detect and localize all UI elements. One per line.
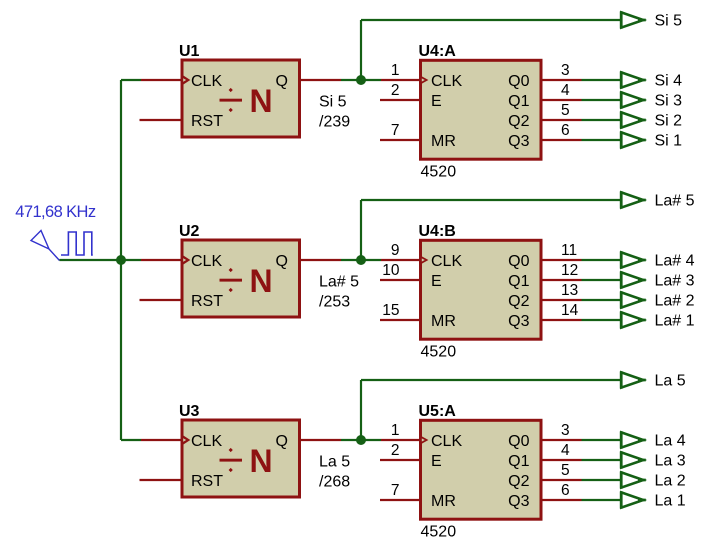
svg-text:3: 3 <box>561 422 570 439</box>
U1 pin RST <box>140 119 184 121</box>
junction node La# 5 <box>356 255 366 265</box>
wire Q2 to buffer La# 2 <box>582 299 621 301</box>
output buffer La 3 <box>621 451 646 468</box>
svg-text:Q: Q <box>276 73 288 90</box>
svg-text:Q2: Q2 <box>508 293 529 310</box>
svg-text:1: 1 <box>391 62 400 79</box>
U2 divide symbol <box>220 268 243 292</box>
svg-text:7: 7 <box>391 122 400 139</box>
U3 divide symbol <box>220 448 243 472</box>
svg-text:La 5: La 5 <box>655 373 686 390</box>
svg-text:14: 14 <box>561 302 579 319</box>
counter U4:A body <box>421 60 542 159</box>
U5:A pin Q1 <box>540 459 582 461</box>
junction clock bus <box>116 255 126 265</box>
output buffer La 4 <box>621 431 646 448</box>
svg-text:CLK: CLK <box>191 433 222 450</box>
svg-text:La 2: La 2 <box>655 473 686 490</box>
wire to La 5 buffer <box>361 379 620 381</box>
svg-text:La# 5: La# 5 <box>319 274 359 291</box>
svg-text:11: 11 <box>561 242 577 259</box>
svg-text:N: N <box>250 443 273 479</box>
svg-text:Si 2: Si 2 <box>655 113 683 130</box>
svg-text:Q1: Q1 <box>508 453 529 470</box>
U3 pin RST <box>140 479 184 481</box>
U4:B pin Q2 <box>540 299 582 301</box>
U5:A pin E <box>380 459 422 461</box>
svg-text:U4:A: U4:A <box>419 43 457 60</box>
svg-text:6: 6 <box>561 122 570 139</box>
svg-text:12: 12 <box>561 262 578 279</box>
wire Q0 to buffer La# 4 <box>582 259 621 261</box>
U3 pin Q <box>299 439 341 441</box>
U4:B clock chevron <box>421 256 429 265</box>
svg-text:6: 6 <box>561 482 570 499</box>
svg-text:Si 5: Si 5 <box>655 13 683 30</box>
output buffer Si 4 <box>621 71 646 88</box>
wire U2 Q to U4:B CLK <box>341 259 381 261</box>
U4:A pin CLK <box>381 79 422 81</box>
svg-text:U4:B: U4:B <box>419 223 456 240</box>
svg-text:RST: RST <box>191 293 223 310</box>
U1 clock chevron <box>182 75 420 86</box>
svg-text:13: 13 <box>561 282 578 299</box>
U3 clock chevron <box>182 435 420 446</box>
svg-text:Si 1: Si 1 <box>655 133 683 150</box>
svg-text:2: 2 <box>391 82 400 99</box>
U5:A pin Q2 <box>540 479 582 481</box>
svg-text:CLK: CLK <box>431 73 462 90</box>
U4:B pin Q3 <box>540 319 582 321</box>
svg-text:RST: RST <box>191 473 223 490</box>
svg-text:Q1: Q1 <box>508 273 529 290</box>
svg-text:MR: MR <box>431 313 456 330</box>
counter U4:B body <box>421 240 542 339</box>
svg-text:Q3: Q3 <box>508 493 529 510</box>
U1 pin Q <box>299 79 341 81</box>
svg-text:La 1: La 1 <box>655 493 686 510</box>
svg-text:4520: 4520 <box>421 163 457 180</box>
output buffer La# 1 <box>621 311 646 328</box>
U2 pin CLK <box>141 259 183 261</box>
wire clock to bus <box>60 259 122 261</box>
wire junction up <box>360 380 362 440</box>
svg-text:RST: RST <box>191 113 223 130</box>
output buffer La# 3 <box>621 271 646 288</box>
U4:A pin Q0 <box>540 79 582 81</box>
wire Q3 to buffer La# 1 <box>582 319 621 321</box>
svg-text:La 3: La 3 <box>655 453 686 470</box>
svg-text:Q: Q <box>276 253 288 270</box>
clock generator waveform <box>61 232 93 255</box>
svg-text:9: 9 <box>391 242 400 259</box>
svg-text:5: 5 <box>561 462 570 479</box>
U4:B pin MR <box>380 319 422 321</box>
svg-text:U5:A: U5:A <box>419 403 457 420</box>
wire Q1 to buffer La 3 <box>582 459 621 461</box>
output buffer La# 4 <box>621 251 646 268</box>
wire CLK bus vertical <box>120 80 122 440</box>
wire Q3 to buffer Si 1 <box>582 139 621 141</box>
svg-text:Q: Q <box>276 433 288 450</box>
svg-text:MR: MR <box>431 493 456 510</box>
svg-text:CLK: CLK <box>431 433 462 450</box>
svg-text:Q2: Q2 <box>508 473 529 490</box>
U4:B pin E <box>380 279 422 281</box>
svg-text:E: E <box>431 453 442 470</box>
U2 clock chevron <box>182 255 420 266</box>
svg-text:Q3: Q3 <box>508 133 529 150</box>
clock generator arrow <box>31 231 60 261</box>
U4:B pin Q1 <box>540 279 582 281</box>
U4:A pin Q3 <box>540 139 582 141</box>
svg-text:/268: /268 <box>319 474 350 491</box>
svg-text:Q0: Q0 <box>508 73 529 90</box>
output buffer Si 3 <box>621 91 646 108</box>
svg-text:1: 1 <box>391 422 400 439</box>
wire bus to U2 CLK <box>121 259 141 261</box>
svg-text:La# 3: La# 3 <box>655 273 695 290</box>
U2 pin Q <box>299 259 341 261</box>
wire bus to U3 CLK <box>121 439 141 441</box>
svg-text:E: E <box>431 273 442 290</box>
U5:A pin CLK <box>381 439 422 441</box>
output buffer La 1 <box>621 491 646 508</box>
svg-text:Q2: Q2 <box>508 113 529 130</box>
output buffer Si 2 <box>621 111 646 128</box>
svg-text:Si 3: Si 3 <box>655 93 683 110</box>
wire to Si 5 buffer <box>361 19 620 21</box>
wire U1 Q to U4:A CLK <box>341 79 381 81</box>
U5:A pin Q0 <box>540 439 582 441</box>
wire Q2 to buffer La 2 <box>582 479 621 481</box>
counter U5:A body <box>421 420 542 519</box>
divider U1 body <box>182 60 300 137</box>
svg-text:Q3: Q3 <box>508 313 529 330</box>
svg-text:Si 4: Si 4 <box>655 73 683 90</box>
U5:A clock chevron <box>421 436 429 445</box>
svg-text:4520: 4520 <box>421 523 457 540</box>
wire Q2 to buffer Si 2 <box>582 119 621 121</box>
svg-text:CLK: CLK <box>191 253 222 270</box>
junction node Si 5 <box>356 75 366 85</box>
svg-text:/253: /253 <box>319 294 350 311</box>
svg-text:Q1: Q1 <box>508 93 529 110</box>
svg-text:10: 10 <box>382 262 400 279</box>
output buffer La# 5 <box>621 191 646 208</box>
U3 pin CLK <box>141 439 183 441</box>
svg-text:4: 4 <box>561 442 570 459</box>
output buffer Si 5 <box>621 11 646 28</box>
svg-text:MR: MR <box>431 133 456 150</box>
svg-text:Q0: Q0 <box>508 253 529 270</box>
svg-text:7: 7 <box>391 482 400 499</box>
svg-text:U1: U1 <box>179 43 200 60</box>
svg-text:471,68 KHz: 471,68 KHz <box>15 203 96 221</box>
svg-text:4520: 4520 <box>421 343 457 360</box>
U4:B pin Q0 <box>540 259 582 261</box>
wire Q0 to buffer Si 4 <box>582 79 621 81</box>
U4:A pin MR <box>380 139 422 141</box>
U2 pin RST <box>140 299 184 301</box>
svg-text:La# 1: La# 1 <box>655 313 695 330</box>
svg-text:La# 4: La# 4 <box>655 253 695 270</box>
svg-text:3: 3 <box>561 62 570 79</box>
divider U3 body <box>182 420 300 497</box>
wire bus to U1 CLK <box>121 79 141 81</box>
svg-text:U3: U3 <box>179 403 200 420</box>
output buffer La 2 <box>621 471 646 488</box>
svg-text:La 5: La 5 <box>319 454 350 471</box>
wire U3 Q to U5:A CLK <box>341 439 381 441</box>
U1 divide symbol <box>220 88 243 112</box>
svg-text:4: 4 <box>561 82 570 99</box>
svg-text:La# 5: La# 5 <box>655 193 695 210</box>
svg-text:N: N <box>250 263 273 299</box>
wire to La# 5 buffer <box>361 199 620 201</box>
svg-text:U2: U2 <box>179 223 200 240</box>
wire Q3 to buffer La 1 <box>582 499 621 501</box>
svg-text:Si 5: Si 5 <box>319 94 347 111</box>
U4:A pin Q1 <box>540 99 582 101</box>
wire Q0 to buffer La 4 <box>582 439 621 441</box>
svg-text:CLK: CLK <box>431 253 462 270</box>
wire junction up <box>360 200 362 260</box>
U4:B pin CLK <box>381 259 422 261</box>
svg-text:N: N <box>250 83 273 119</box>
svg-text:5: 5 <box>561 102 570 119</box>
U4:A clock chevron <box>421 76 429 85</box>
svg-text:La 4: La 4 <box>655 433 686 450</box>
svg-text:CLK: CLK <box>191 73 222 90</box>
output buffer La# 2 <box>621 291 646 308</box>
output buffer Si 1 <box>621 131 646 148</box>
divider U2 body <box>182 240 300 317</box>
wire Q1 to buffer La# 3 <box>582 279 621 281</box>
junction node La 5 <box>356 435 366 445</box>
wire Q1 to buffer Si 3 <box>582 99 621 101</box>
wire junction up <box>360 20 362 80</box>
U4:A pin E <box>380 99 422 101</box>
U4:A pin Q2 <box>540 119 582 121</box>
svg-text:La# 2: La# 2 <box>655 293 695 310</box>
svg-text:E: E <box>431 93 442 110</box>
U5:A pin Q3 <box>540 499 582 501</box>
output buffer La 5 <box>621 371 646 388</box>
svg-text:/239: /239 <box>319 114 350 131</box>
svg-text:Q0: Q0 <box>508 433 529 450</box>
svg-text:2: 2 <box>391 442 400 459</box>
svg-text:15: 15 <box>382 302 399 319</box>
U5:A pin MR <box>380 499 422 501</box>
U1 pin CLK <box>141 79 183 81</box>
